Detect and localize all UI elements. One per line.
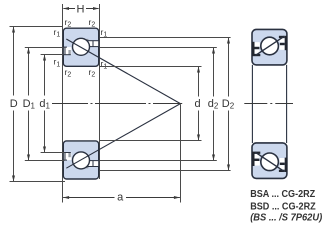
right view lower section (252, 143, 287, 179)
dimension D2 (100, 38, 231, 171)
wire right face line (99, 4, 101, 179)
axis centerline (52, 103, 182, 105)
svg-text:(BS ... /S 7P62U): (BS ... /S 7P62U) (250, 212, 323, 223)
contact angle line lower (66, 104, 180, 169)
dimension a (180, 104, 182, 202)
lower bearing section (63, 141, 98, 179)
contact angle line upper (66, 39, 180, 104)
dimension D1 (25, 48, 65, 161)
wire left face line (62, 4, 64, 203)
svg-text:D: D (10, 98, 18, 110)
dimension H (63, 8, 98, 10)
right view face line left (251, 65, 253, 143)
right view centerline (244, 103, 293, 105)
dimension d2 (100, 48, 217, 161)
svg-text:BSD ... CG-2RZ: BSD ... CG-2RZ (250, 201, 316, 212)
dimension D (10, 27, 66, 182)
svg-text:BSA ... CG-2RZ: BSA ... CG-2RZ (250, 189, 315, 200)
right view upper section (252, 29, 287, 65)
upper bearing section (63, 28, 98, 66)
svg-text:a: a (117, 191, 124, 203)
right view face line right (286, 65, 288, 143)
dimension d1 (41, 55, 65, 153)
svg-text:d: d (194, 98, 200, 110)
svg-text:H: H (77, 4, 85, 16)
dimension d (100, 67, 202, 141)
